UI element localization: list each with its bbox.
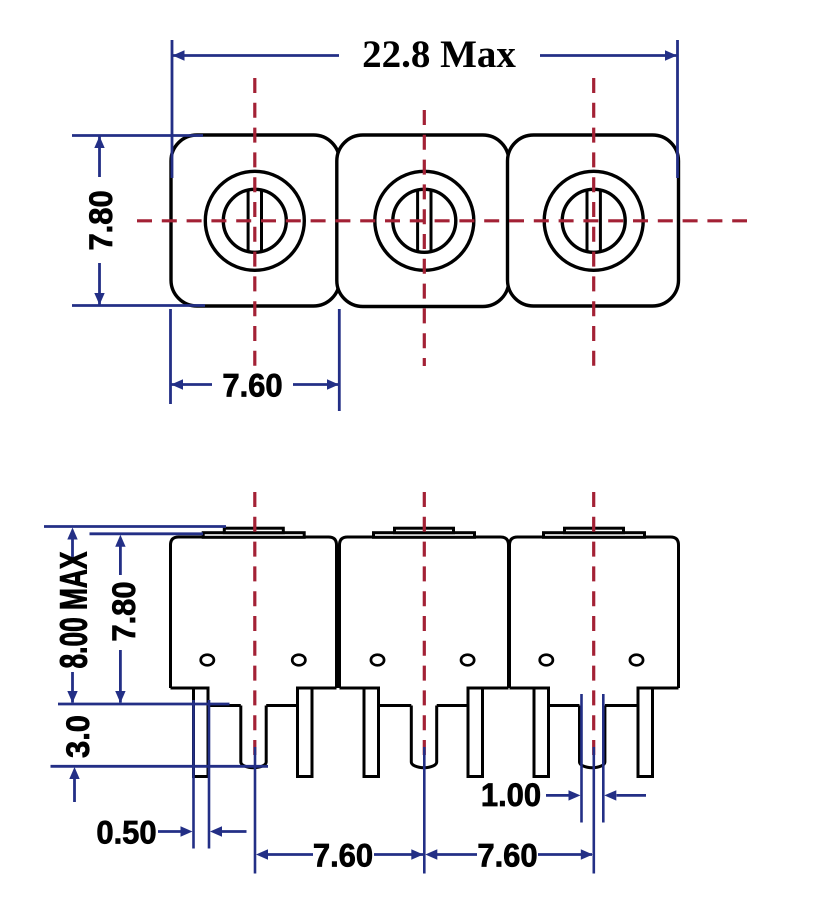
centerline vertical 2 (top view) bbox=[423, 110, 426, 366]
front body 1 seating edge right of center tab bbox=[266, 704, 297, 707]
centerline vertical 1 (front view) bbox=[253, 492, 256, 757]
front body 3 seating edge left of center tab bbox=[549, 704, 580, 707]
front body 2 right pin bbox=[468, 688, 483, 777]
rotor outer circle 1 bbox=[205, 171, 304, 270]
top view body 3 (rounded square) bbox=[508, 135, 679, 306]
dimension 7.60 span2 : left stem bbox=[437, 853, 477, 856]
dimension 1.00 : right stem bbox=[617, 794, 647, 797]
front body 1 cap upper step bbox=[224, 528, 283, 533]
dimension 22.8 Max : dimension line left segment bbox=[173, 54, 339, 57]
front body 3 right pin bbox=[638, 688, 653, 777]
dimension 3.0 : arrow stem bbox=[73, 778, 76, 802]
dimension 8.00 MAX : up arrow bbox=[67, 528, 77, 540]
dimension 0.50 : extension line left of pin bbox=[192, 700, 195, 849]
dimension 7.80 (top view) : dimension line lower bbox=[98, 263, 101, 305]
dimension 7.60 (top view) : extension line left bbox=[169, 309, 172, 404]
svg-text:7.80: 7.80 bbox=[82, 190, 119, 250]
dimension 7.60 (top view) : extension line right bbox=[338, 309, 341, 411]
dimension 0.50 : right stem bbox=[222, 830, 247, 833]
svg-text:3.0: 3.0 bbox=[59, 715, 96, 758]
front body 2 seating edge left of center tab bbox=[379, 704, 412, 707]
front body 2 cap upper step bbox=[395, 528, 454, 533]
dimension 7.80 (front) : down arrow bbox=[115, 691, 125, 703]
front body 2 left pin bbox=[364, 688, 379, 777]
front body 2 outline (left edge, top, right edge) bbox=[340, 537, 509, 688]
dimension 7.60 (top view) : dimension line left bbox=[172, 383, 213, 386]
rotor inner circle 1 bbox=[223, 189, 286, 252]
pin tip reference line bbox=[51, 765, 269, 768]
dimension 1.00 : right arrow bbox=[604, 790, 616, 800]
dimension 7.60 x2 : extension line body1 center bbox=[254, 747, 257, 874]
front body 3 cap upper step bbox=[565, 528, 624, 533]
rotor outer circle 2 bbox=[375, 171, 474, 270]
dimension 3.0 : up arrow below line bbox=[69, 767, 79, 779]
dimension 22.8 Max : extension line left bbox=[171, 40, 174, 178]
front body 1 fill bbox=[171, 537, 337, 688]
front body 3 hole left bbox=[540, 655, 553, 666]
dimension 7.60 (top view) : right arrow bbox=[327, 379, 339, 389]
dimension 1.00 : extension line left bbox=[580, 694, 583, 823]
front body 2 bottom edge right segment (crosses right pin top) bbox=[468, 687, 509, 690]
front body 1 bottom edge right segment (crosses right pin top) bbox=[298, 687, 337, 690]
svg-text:7.80: 7.80 bbox=[105, 581, 142, 641]
dimension 7.60 span2 : right stem bbox=[538, 853, 592, 856]
svg-text:8.00 MAX: 8.00 MAX bbox=[52, 551, 95, 668]
front body 2 cap lower step bbox=[374, 533, 475, 538]
dimension 7.80 (front) : up arrow bbox=[115, 535, 125, 547]
front body 2 fill bbox=[340, 537, 509, 688]
front body 2 bottom edge left segment (crosses left pin top) bbox=[340, 687, 379, 690]
dimension 8.00 MAX : down arrow bbox=[67, 691, 77, 703]
screwdriver slot 2 bbox=[416, 190, 419, 251]
dimension 7.60 x2 : extension line body2 center bbox=[423, 747, 426, 874]
centerline horizontal (top view, red dashed) bbox=[137, 219, 747, 222]
dimension 8.00 MAX : extension line at cap top bbox=[44, 525, 226, 528]
front body 3 outline (left edge, top, right edge) bbox=[510, 537, 679, 688]
centerline vertical 3 (front view) bbox=[592, 492, 595, 757]
dimension 8.00 MAX : dim line lower bbox=[71, 672, 74, 703]
dimension 1.00 : extension line right bbox=[602, 694, 605, 823]
top view body 1 (rounded square) bbox=[171, 135, 340, 306]
dimension 7.80 (front) : dim line lower bbox=[119, 650, 122, 703]
centerline vertical 1 (top view) bbox=[253, 78, 256, 366]
svg-text:7.60: 7.60 bbox=[222, 367, 282, 404]
top view body 2 (rounded square) bbox=[337, 135, 509, 307]
front body 3 bottom edge right segment (crosses right pin top) bbox=[638, 687, 679, 690]
rotor inner circle 2 bbox=[393, 189, 456, 252]
svg-text:0.50: 0.50 bbox=[96, 814, 156, 851]
dimension 22.8 Max : dimension line right segment bbox=[540, 54, 677, 57]
svg-text:7.60: 7.60 bbox=[313, 837, 373, 874]
svg-text:1.00: 1.00 bbox=[481, 776, 541, 813]
front body 3 center tab (rounded bottom) bbox=[580, 706, 605, 768]
rotor outer circle 3 bbox=[544, 171, 643, 270]
dimension 8.00 MAX : dim line upper bbox=[71, 538, 74, 560]
front body 1 hole left bbox=[201, 655, 214, 666]
svg-text:7.60: 7.60 bbox=[477, 837, 537, 874]
front body 1 right pin bbox=[298, 688, 313, 777]
screwdriver slot 1 bbox=[247, 190, 250, 251]
dimension 22.8 Max : left arrow bbox=[173, 50, 185, 60]
front body 3 fill bbox=[510, 537, 679, 688]
dimension 7.80 (front) : extension line at body top bbox=[90, 532, 204, 535]
front body 3 hole right bbox=[630, 655, 643, 666]
svg-text:22.8 Max: 22.8 Max bbox=[362, 33, 516, 76]
centerline vertical 3 (top view) bbox=[592, 78, 595, 366]
screwdriver slot 3 bbox=[586, 190, 589, 251]
dimension 7.60 span1 : right arrow bbox=[411, 849, 423, 859]
dimension 1.00 : left arrow bbox=[569, 790, 581, 800]
front body 2 hole right bbox=[461, 655, 474, 666]
front body 1 seating edge left of center tab bbox=[208, 704, 241, 707]
front body 3 seating edge right of center tab bbox=[605, 704, 638, 707]
front body 3 bottom edge left segment (crosses left pin top) bbox=[510, 687, 549, 690]
front body 3 cap lower step bbox=[544, 533, 645, 538]
centerline vertical 2 (front view) bbox=[423, 492, 426, 757]
dimension 7.60 span1 : left arrow bbox=[256, 849, 268, 859]
dimension 7.80 (top view) : dimension line upper bbox=[98, 137, 101, 178]
front body 2 seating edge right of center tab bbox=[437, 704, 468, 707]
dimension 7.80 (top view) : up arrow bbox=[94, 136, 104, 148]
dimension 1.00 : left stem bbox=[546, 794, 569, 797]
dimension 7.80 (top view) : extension line top bbox=[72, 134, 203, 137]
dimension 7.60 span2 : right arrow bbox=[581, 849, 593, 859]
dimension 0.50 : extension line right of pin bbox=[208, 700, 211, 849]
front body 1 left pin bbox=[194, 688, 209, 777]
rotor inner circle 3 bbox=[562, 189, 625, 252]
dimension 0.50 : left stem bbox=[158, 830, 181, 833]
dimension 7.60 span1 : right stem bbox=[374, 853, 423, 856]
dimension 7.80 (top view) : extension line bottom bbox=[72, 304, 205, 307]
dimension 7.60 x2 : extension line body3 center bbox=[592, 747, 595, 874]
seating plane reference line bbox=[58, 703, 230, 706]
dimension 22.8 Max : extension line right bbox=[676, 40, 679, 178]
dimension 7.60 span2 : left arrow bbox=[425, 849, 437, 859]
dimension 7.80 (front) : dim line upper bbox=[119, 545, 122, 575]
front body 1 center tab (rounded bottom) bbox=[241, 706, 266, 768]
dimension 7.80 (top view) : down arrow bbox=[94, 293, 104, 305]
dimension 22.8 Max : right arrow bbox=[665, 50, 677, 60]
front body 2 hole left bbox=[371, 655, 384, 666]
front body 3 left pin bbox=[534, 688, 549, 777]
dimension 7.60 (top view) : dimension line right bbox=[293, 383, 339, 386]
dimension 7.60 span1 : left stem bbox=[268, 853, 313, 856]
front body 1 bottom edge left segment (crosses left pin top) bbox=[171, 687, 209, 690]
front body 1 hole right bbox=[292, 655, 305, 666]
front body 1 outline (left edge, top, right edge) bbox=[171, 537, 337, 688]
dimension 7.60 (top view) : left arrow bbox=[171, 379, 183, 389]
front body 1 cap lower step bbox=[203, 533, 304, 538]
dimension 0.50 : right arrow bbox=[210, 826, 222, 836]
dimension 0.50 : left arrow bbox=[181, 826, 193, 836]
front body 2 center tab (rounded bottom) bbox=[411, 706, 436, 768]
